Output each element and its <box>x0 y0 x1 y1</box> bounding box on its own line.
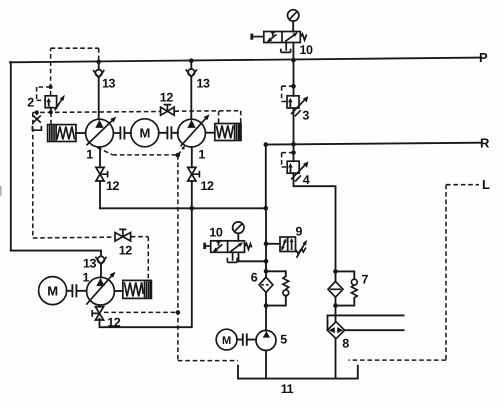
check valve 13c <box>95 256 106 277</box>
svg-text:12: 12 <box>107 316 121 330</box>
valve 10b exhaust bracket <box>227 252 237 262</box>
wire central vertical line <box>265 208 267 277</box>
check valve 13a <box>93 62 104 120</box>
pressure gauge on valve 10 <box>288 10 299 32</box>
node pilot 4 <box>291 150 296 155</box>
svg-text:7: 7 <box>362 273 369 287</box>
svg-text:10: 10 <box>300 43 314 57</box>
svg-text:M: M <box>47 283 57 298</box>
dashed control box left edge <box>32 113 34 239</box>
pump 2a variable displacement pump <box>178 114 210 147</box>
node P-13a <box>96 60 101 65</box>
valve 9 relief valve <box>280 237 307 258</box>
svg-text:M: M <box>222 335 231 347</box>
svg-text:13: 13 <box>102 77 116 91</box>
pump 1c variable displacement pump <box>86 272 115 305</box>
wire service line 1 <box>328 315 404 330</box>
node R corner <box>264 142 269 147</box>
wire valve3 to R <box>293 108 295 144</box>
svg-text:12: 12 <box>201 179 215 193</box>
svg-text:10: 10 <box>209 226 223 240</box>
valve 4 pressure reducing valve <box>287 161 308 181</box>
wire valve10b drain to main <box>239 252 267 261</box>
coupling motor-pump5 <box>237 334 256 344</box>
svg-text:4: 4 <box>303 173 310 187</box>
svg-text:2: 2 <box>27 96 34 110</box>
node mid-12b <box>190 206 195 211</box>
pilot loop valve 2 dashed rectangle <box>51 48 99 95</box>
shutoff valve 12b <box>188 147 200 208</box>
node P-13b <box>189 58 194 63</box>
cooler / coupling 8 <box>327 322 344 339</box>
svg-text:8: 8 <box>342 337 349 351</box>
wire P down to valve 3 <box>293 60 295 96</box>
valve U10 top 3/2 directional valve <box>250 32 306 43</box>
valve 10 exhaust bracket <box>281 43 291 53</box>
node drain junction <box>176 153 181 158</box>
dashed drain main vertical <box>177 155 179 361</box>
node P-10 <box>291 58 296 63</box>
wire R return line <box>266 143 481 145</box>
wire valve2 bottom connector <box>50 108 52 113</box>
dashed drop to box 1a <box>50 112 52 124</box>
dashed drain from pump1a <box>97 148 178 155</box>
shutoff valve 12d <box>115 229 131 241</box>
svg-text:9: 9 <box>296 225 303 239</box>
wire filter7 down to cooler 8 <box>335 297 337 322</box>
dashed control box bottom edge <box>33 237 149 281</box>
node filter6 bypass bottom <box>264 303 269 308</box>
dashed leak line L <box>349 185 480 360</box>
scan artifact left edge tick <box>0 186 2 196</box>
node R-3 <box>291 142 296 147</box>
svg-text:3: 3 <box>302 109 309 123</box>
node box-2 <box>49 110 53 114</box>
filter 6 <box>259 277 273 292</box>
svg-text:11: 11 <box>281 382 294 396</box>
wire filter6 to pump 5 <box>265 292 267 330</box>
dashed control arrow to pump2a <box>178 148 184 155</box>
pilot line valve 4 <box>282 153 294 167</box>
bypass check of filter 6 <box>266 271 289 305</box>
spring box of pump 1c <box>114 280 151 298</box>
shutoff valve 12a <box>96 147 108 208</box>
svg-text:13: 13 <box>197 76 211 90</box>
spring box of pump 1a <box>48 125 86 142</box>
valve 3 pressure reducing valve <box>287 96 308 117</box>
node box-X <box>35 110 39 114</box>
wire pump5 to tank <box>265 350 267 378</box>
node filter6 bypass top <box>264 269 269 274</box>
node valve9 branch <box>264 242 269 247</box>
svg-text:12: 12 <box>119 244 133 258</box>
filter 7 <box>328 281 343 297</box>
pump 1a variable displacement pump <box>86 117 117 147</box>
check valve 13b <box>186 61 197 120</box>
wire R corner down <box>265 145 267 209</box>
svg-text:12: 12 <box>106 179 120 193</box>
svg-text:12: 12 <box>160 91 174 105</box>
coupling motor-pump2a <box>159 127 178 138</box>
coupling motor-pump1c <box>67 285 87 296</box>
node filter7 bypass bottom <box>333 303 338 308</box>
wire cooler8 to tank <box>335 339 337 379</box>
shutoff valve 12c <box>92 305 103 320</box>
wire feed to check 13c <box>100 251 102 257</box>
coupling pump1a-motor <box>113 127 131 138</box>
wire valve10 to P <box>292 43 294 61</box>
tank 11 <box>238 366 358 379</box>
wire left frame vertical <box>10 62 12 251</box>
node pilot 3 <box>291 84 296 89</box>
svg-text:P: P <box>479 50 488 65</box>
svg-text:1: 1 <box>86 148 93 162</box>
plugged test point X <box>32 112 41 130</box>
svg-text:R: R <box>480 136 490 151</box>
wire R to valve 4 <box>293 144 295 161</box>
svg-text:5: 5 <box>280 333 287 347</box>
node pilot2 <box>49 85 53 89</box>
valve U10b 3/2 directional valve <box>203 241 251 253</box>
pump 5 fixed pump <box>256 330 276 350</box>
node valve10b drain <box>264 259 269 264</box>
dashed drain to tank <box>178 360 238 362</box>
shutoff valve 12e top middle <box>161 105 175 116</box>
svg-text:1: 1 <box>198 148 205 162</box>
wire branch to valve 9 <box>266 243 280 245</box>
svg-text:1: 1 <box>83 271 90 285</box>
wire pump legs down to bottom loop <box>100 208 192 327</box>
node case drain junction <box>176 310 181 315</box>
electric motor M bottom middle <box>216 329 237 350</box>
dashed case drain pump1c <box>104 311 178 313</box>
wire P supply line <box>10 58 481 63</box>
node mid corner <box>264 206 269 211</box>
node filter7 bypass top <box>333 269 338 274</box>
wire service line 2 <box>345 329 404 331</box>
svg-text:M: M <box>140 126 150 141</box>
pilot line valve 3 <box>282 86 294 101</box>
electric motor M bottom left <box>39 277 67 305</box>
svg-text:13: 13 <box>83 256 97 270</box>
electric motor M top <box>131 119 159 147</box>
wire mid collector horizontal <box>100 207 266 209</box>
svg-text:L: L <box>482 177 490 192</box>
valve 2 pressure compensator <box>45 95 65 111</box>
wire valve4 out to x335 <box>294 173 336 281</box>
pressure gauge on valve 10b <box>233 222 244 241</box>
svg-text:6: 6 <box>251 271 258 285</box>
dashed drops to box 2a <box>219 111 241 124</box>
spring box of pump 2a <box>206 124 241 141</box>
pilot bracket valve 2 <box>37 87 51 100</box>
wire bottom feed horizontal <box>11 250 101 252</box>
bypass check of filter 7 <box>336 271 358 305</box>
dashed control box top edge <box>33 111 241 113</box>
